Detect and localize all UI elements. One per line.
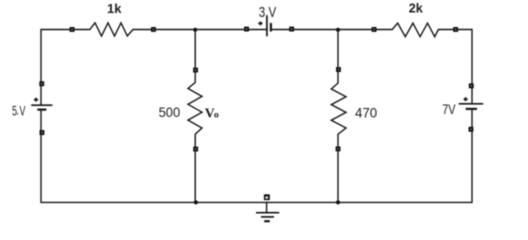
svg-text:470: 470 <box>355 105 378 120</box>
svg-text:500: 500 <box>159 105 181 120</box>
svg-text:7V: 7V <box>442 101 456 117</box>
svg-text:3 V: 3 V <box>259 5 277 21</box>
svg-text:5 V: 5 V <box>12 103 25 118</box>
svg-text:2k: 2k <box>409 2 423 16</box>
svg-text:o: o <box>214 109 219 120</box>
svg-text:1k: 1k <box>107 2 121 16</box>
